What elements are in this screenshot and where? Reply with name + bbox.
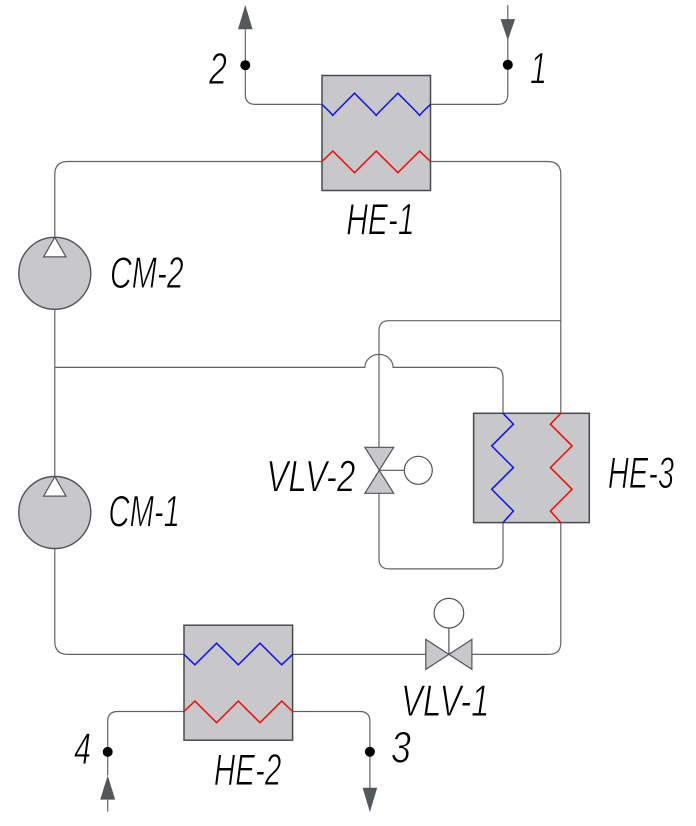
svg-text:3: 3 xyxy=(391,724,411,773)
svg-text:4: 4 xyxy=(74,725,91,774)
svg-text:HE-3: HE-3 xyxy=(608,449,674,498)
node 2 xyxy=(240,60,250,70)
heat exchanger HE-3 body xyxy=(474,413,590,522)
wire VLV-2 vertical line through valve xyxy=(379,331,503,569)
svg-text:HE-2: HE-2 xyxy=(214,746,282,795)
wire HE-1 hot left to left trunk down through pumps to HE-2 cold left xyxy=(55,162,322,655)
heat exchanger HE-2 body xyxy=(184,625,293,740)
HE-3 hot stream zigzag xyxy=(550,413,572,522)
HE-1 cold stream zigzag xyxy=(322,93,431,115)
node 4 xyxy=(103,747,113,757)
wire HE-1 hot right to right trunk down to HE-3 hot inlet xyxy=(431,162,561,414)
svg-text:VLV-2: VLV-2 xyxy=(266,453,355,502)
svg-text:2: 2 xyxy=(208,45,227,94)
wire middle branch from left trunk with hop over VLV-2 line to HE-3 cold inlet xyxy=(55,354,503,413)
svg-text:CM-2: CM-2 xyxy=(110,249,184,298)
svg-text:HE-1: HE-1 xyxy=(346,196,414,245)
node 3 xyxy=(365,747,375,757)
arrow outflow at node 2 xyxy=(238,5,253,29)
arrow inflow at node 4 xyxy=(100,775,115,799)
wire HE-2 hot right to node3 drop xyxy=(293,712,370,789)
wire HE-2 hot left to node4 drop xyxy=(108,712,184,812)
wire node2 riser to HE-1 cold inlet left xyxy=(245,29,322,104)
wire VLV-2 branch top horizontal to right trunk T junction xyxy=(379,321,561,331)
svg-text:1: 1 xyxy=(530,45,547,94)
arrow outflow at node 3 xyxy=(363,788,378,812)
compressor CM-2 xyxy=(19,237,91,309)
wire HE-1 cold outlet right to node1 riser xyxy=(431,5,508,104)
HE-2 cold stream zigzag xyxy=(184,643,293,665)
valve VLV-2 xyxy=(365,447,432,493)
heat exchanger HE-1 body xyxy=(322,76,431,191)
valve VLV-1 xyxy=(426,598,472,669)
svg-text:CM-1: CM-1 xyxy=(109,488,180,537)
HE-1 hot stream zigzag xyxy=(322,151,431,173)
arrow inflow at node 1 xyxy=(501,19,516,40)
HE-3 cold stream zigzag xyxy=(492,413,514,522)
node 1 xyxy=(503,60,513,70)
wire right trunk below HE-3 to VLV-1 and HE-2 cold right xyxy=(293,523,561,655)
HE-2 hot stream zigzag xyxy=(184,701,293,723)
compressor CM-1 xyxy=(19,477,91,549)
svg-text:VLV-1: VLV-1 xyxy=(401,677,490,726)
